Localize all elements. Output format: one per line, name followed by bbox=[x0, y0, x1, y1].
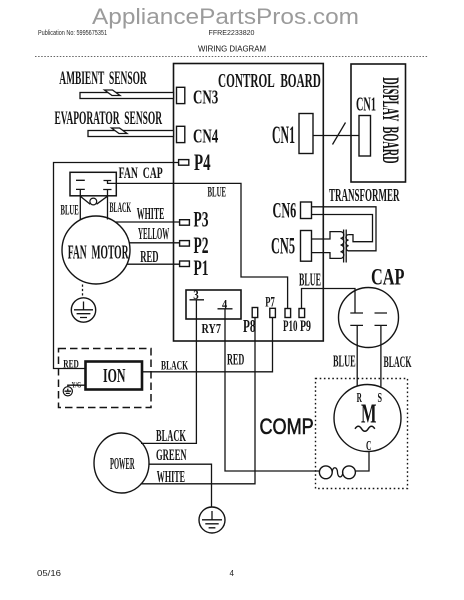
svg-text:05/16: 05/16 bbox=[37, 569, 62, 578]
svg-text:RED: RED bbox=[227, 351, 244, 368]
svg-text:WHITE: WHITE bbox=[157, 467, 185, 486]
svg-text:3: 3 bbox=[193, 287, 199, 302]
svg-text:BLACK: BLACK bbox=[110, 200, 132, 216]
svg-text:AMBIENT SENSOR: AMBIENT SENSOR bbox=[59, 69, 147, 89]
svg-text:RED: RED bbox=[63, 358, 78, 371]
svg-text:P10: P10 bbox=[283, 317, 297, 334]
svg-text:C: C bbox=[366, 439, 371, 454]
svg-text:DISPLAY BOARD: DISPLAY BOARD bbox=[378, 77, 404, 163]
svg-text:ION: ION bbox=[103, 364, 126, 387]
svg-text:FAN MOTOR: FAN MOTOR bbox=[68, 242, 129, 264]
svg-text:BLUE: BLUE bbox=[333, 351, 356, 370]
svg-text:BLUE: BLUE bbox=[61, 203, 79, 218]
svg-text:BLACK: BLACK bbox=[384, 353, 412, 371]
svg-text:CN1: CN1 bbox=[272, 121, 295, 149]
svg-text:S: S bbox=[378, 391, 383, 406]
svg-text:TRANSFORMER: TRANSFORMER bbox=[329, 186, 400, 205]
svg-text:P8: P8 bbox=[243, 318, 256, 337]
svg-text:P4: P4 bbox=[194, 150, 211, 176]
svg-text:COMP: COMP bbox=[260, 415, 314, 439]
svg-text:CAP: CAP bbox=[371, 265, 405, 291]
svg-text:4: 4 bbox=[230, 569, 235, 578]
svg-text:BLUE: BLUE bbox=[299, 271, 321, 290]
svg-text:AppliancePartsPros.com: AppliancePartsPros.com bbox=[92, 4, 359, 29]
svg-text:WHITE: WHITE bbox=[137, 203, 165, 222]
svg-text:Publication No: 5995675351: Publication No: 5995675351 bbox=[38, 28, 107, 37]
svg-text:P9: P9 bbox=[300, 317, 311, 335]
svg-text:CN5: CN5 bbox=[271, 234, 295, 260]
svg-text:M: M bbox=[361, 398, 376, 428]
svg-text:FAN CAP: FAN CAP bbox=[119, 163, 163, 181]
svg-text:Y/G: Y/G bbox=[72, 379, 82, 390]
svg-text:CN6: CN6 bbox=[273, 198, 297, 223]
svg-text:RED: RED bbox=[140, 247, 159, 266]
svg-text:BLUE: BLUE bbox=[208, 185, 227, 200]
svg-text:P1: P1 bbox=[194, 256, 209, 280]
svg-text:BLACK: BLACK bbox=[156, 426, 186, 445]
svg-text:CONTROL BOARD: CONTROL BOARD bbox=[218, 71, 321, 92]
svg-text:BLACK: BLACK bbox=[161, 358, 189, 373]
svg-text:P7: P7 bbox=[265, 293, 275, 310]
svg-text:CN1: CN1 bbox=[356, 94, 376, 115]
svg-text:WIRING DIAGRAM: WIRING DIAGRAM bbox=[198, 44, 266, 54]
svg-text:EVAPORATOR SENSOR: EVAPORATOR SENSOR bbox=[55, 109, 163, 129]
svg-text:POWER: POWER bbox=[110, 454, 135, 472]
svg-text:YELLOW: YELLOW bbox=[138, 224, 169, 242]
svg-text:P3: P3 bbox=[194, 207, 209, 231]
svg-text:GREEN: GREEN bbox=[156, 446, 187, 463]
svg-text:4: 4 bbox=[222, 297, 227, 311]
svg-text:CN4: CN4 bbox=[193, 125, 219, 148]
svg-text:RY7: RY7 bbox=[202, 320, 221, 336]
svg-text:FFRE2233820: FFRE2233820 bbox=[209, 28, 255, 37]
svg-text:CN3: CN3 bbox=[193, 86, 218, 109]
